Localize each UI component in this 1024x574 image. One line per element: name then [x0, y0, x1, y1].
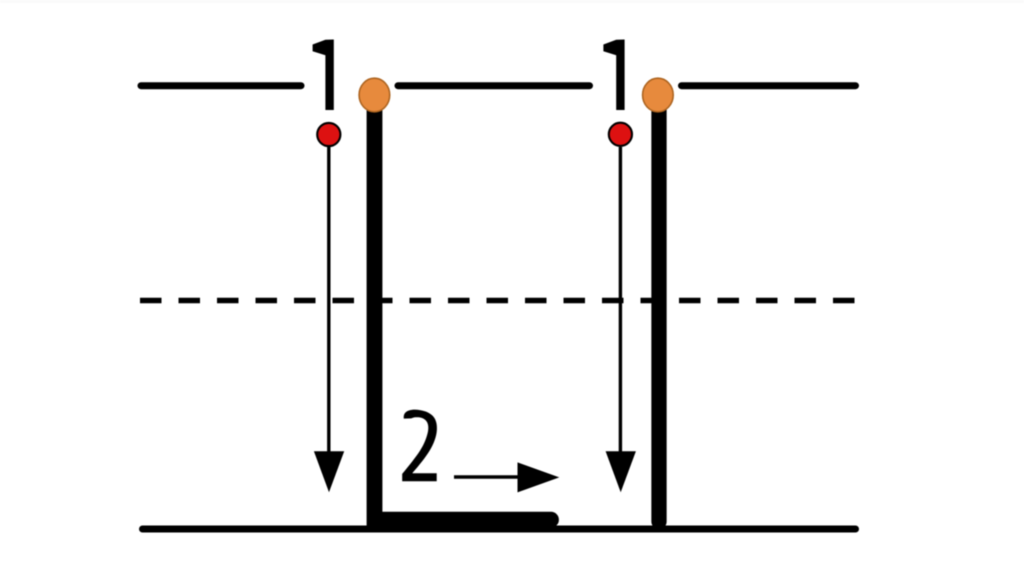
stroke-2 right arrowhead [518, 462, 560, 492]
stroke number 1 (right) [603, 40, 624, 111]
red guide dot (left) [317, 123, 340, 146]
stroke-2 right arrow stem [454, 475, 524, 478]
top writing line segment A [141, 82, 301, 89]
top writing line segment C [682, 82, 856, 89]
stroke-1 down arrowhead (left) [314, 451, 344, 492]
orange start dot (right letter) [643, 78, 674, 112]
stroke-1 down arrow stem (left) [327, 147, 330, 455]
stroke number 2 [402, 410, 437, 482]
stroke number 1 (left) [313, 40, 334, 111]
baseline (bottom writing line) [143, 526, 856, 533]
red guide dot (right) [609, 123, 632, 146]
faint frame edge strip [0, 0, 1024, 3]
letter stroke: left vertical with foot (L shape) [375, 98, 552, 520]
letter stroke: right vertical [651, 98, 666, 522]
stroke-1 down arrow stem (right) [619, 147, 622, 455]
orange start dot (left letter) [359, 78, 390, 112]
dashed midline [140, 298, 855, 304]
stroke-1 down arrowhead (right) [606, 451, 636, 492]
top writing line segment B [398, 82, 590, 89]
